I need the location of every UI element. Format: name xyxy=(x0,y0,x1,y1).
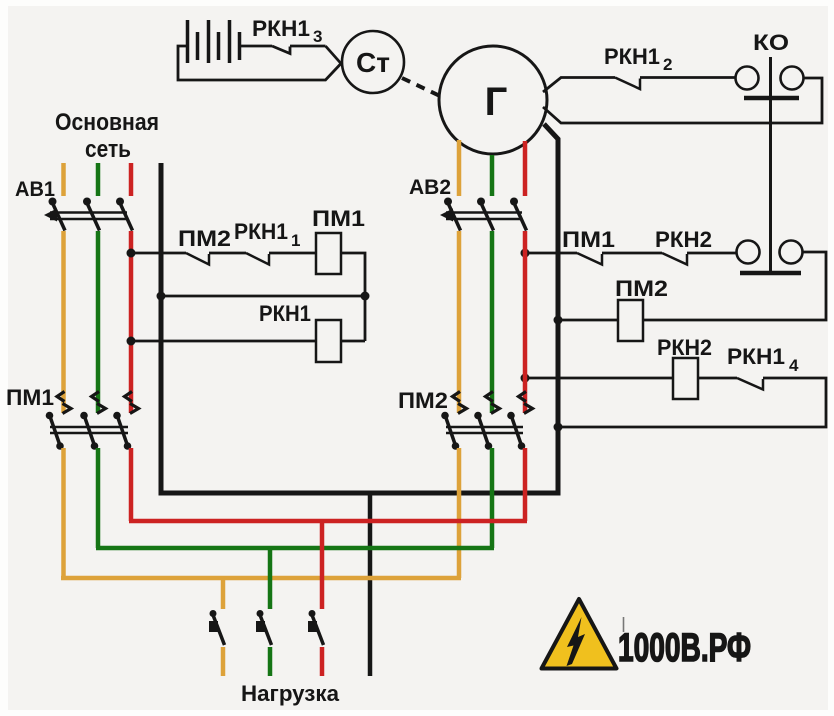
wire РКН1_1 to ПМ1 coil xyxy=(269,252,316,255)
wire РКН2 contact to КО lower xyxy=(687,252,737,255)
bus phase A (orange) xyxy=(61,576,461,581)
dashed shaft link Ст-Г xyxy=(402,78,440,96)
coil ПМ1 xyxy=(316,233,341,274)
wire red node to ПМ2 contact xyxy=(131,252,186,255)
generator Г xyxy=(439,46,547,154)
node on neutral (558,427) xyxy=(554,423,563,432)
wire phase A АВ1 to ПМ1 xyxy=(61,231,66,413)
wire Г to РКН1_2 xyxy=(543,78,615,93)
svg-text:Основная: Основная xyxy=(55,109,159,136)
wire phase B ПМ2 out xyxy=(490,448,495,548)
wire ПМ2 to РКН1_1 xyxy=(209,252,246,255)
svg-text:ПМ2: ПМ2 xyxy=(615,276,668,301)
svg-text:АВ1: АВ1 xyxy=(15,178,55,201)
load switch phase C xyxy=(308,610,324,645)
wire red node to РКН2 coil xyxy=(525,377,673,380)
wire ПМ2 coil to КО lower xyxy=(643,252,826,320)
wire РКН1_4 loop to neutral xyxy=(558,378,826,427)
wire phase B АВ2 to ПМ2 xyxy=(490,231,495,413)
wire РКН1 coil right xyxy=(341,340,365,343)
starter Ст xyxy=(342,31,404,93)
neutral bus left vertical xyxy=(159,163,164,493)
svg-text:ПМ1: ПМ1 xyxy=(6,385,54,410)
coil ПМ2 xyxy=(618,300,643,341)
bus phase C (red) xyxy=(129,519,527,524)
contact ПМ1 (auxiliary) xyxy=(577,253,602,265)
svg-text:3: 3 xyxy=(313,27,322,46)
wire neutral to ПМ2 coil xyxy=(558,319,618,322)
svg-text:2: 2 xyxy=(663,55,672,74)
wire ПМ1 coil right xyxy=(341,253,365,341)
wire load phase A xyxy=(221,647,226,676)
svg-text:РКН1: РКН1 xyxy=(604,44,660,69)
КО upper contact circles xyxy=(736,67,804,90)
neutral drop to load xyxy=(368,493,373,676)
contact РКН2 (auxiliary) xyxy=(662,253,687,265)
КО lower linkage bar xyxy=(740,271,801,276)
node (365,296) xyxy=(361,292,370,301)
load switch phase B xyxy=(256,610,272,645)
contactor ПМ2 xyxy=(441,392,532,450)
wire load phase B xyxy=(268,647,273,676)
wire phase B ПМ1 out xyxy=(96,448,101,548)
drop phase A to load xyxy=(221,578,226,609)
logo tick xyxy=(623,617,625,632)
wire to starter xyxy=(326,46,342,64)
wire battery left/bottom loop xyxy=(178,46,341,80)
coil РКН2 xyxy=(673,358,698,399)
svg-text:Нагрузка: Нагрузка xyxy=(241,681,340,706)
wire phase B АВ1 to ПМ1 xyxy=(96,231,101,413)
svg-text:РКН2: РКН2 xyxy=(655,227,712,252)
node on red phase (525,253) xyxy=(521,249,530,258)
svg-text:Ст: Ст xyxy=(356,47,390,78)
svg-text:РКН1: РКН1 xyxy=(259,301,311,326)
КО lower contact circles xyxy=(737,241,803,264)
breaker АВ2 xyxy=(440,198,527,231)
drop phase C to load xyxy=(320,521,325,609)
label РКН1_4 xyxy=(727,344,799,375)
svg-text:РКН1: РКН1 xyxy=(234,219,288,244)
coil РКН1 xyxy=(316,320,341,362)
wire phase C АВ1 to ПМ1 xyxy=(129,231,134,413)
svg-text:АВ2: АВ2 xyxy=(409,176,451,199)
wire РКН1_2 to КО xyxy=(640,76,736,79)
svg-text:РКН2: РКН2 xyxy=(657,335,712,360)
wire ПМ1 to РКН2 contact xyxy=(602,252,662,255)
svg-text:ПМ1: ПМ1 xyxy=(312,206,365,231)
wire neutral tap y=296 xyxy=(161,295,365,298)
warning triangle xyxy=(542,599,617,669)
contact РКН1_3 xyxy=(272,46,326,54)
svg-text:1000В.РФ: 1000В.РФ xyxy=(618,626,751,670)
wire Г phase B xyxy=(490,155,495,196)
wire Г phase C xyxy=(523,141,528,196)
svg-text:сеть: сеть xyxy=(85,136,131,163)
contact РКН1_2 xyxy=(615,78,640,90)
load switch phase A xyxy=(209,610,225,645)
contact ПМ2 (auxiliary NC) xyxy=(186,253,209,265)
wire phase C ПМ1 out xyxy=(129,448,134,521)
neutral bus bottom horizontal xyxy=(159,491,561,496)
КО upper linkage bar xyxy=(744,96,799,101)
contactor ПМ1 xyxy=(46,392,139,450)
wire Г phase A xyxy=(457,140,462,196)
svg-text:4: 4 xyxy=(789,356,799,375)
svg-text:Г: Г xyxy=(485,80,508,124)
node on red phase (525,378) xyxy=(521,374,530,383)
node on neutral (558,320) xyxy=(554,316,563,325)
wire battery plus terminal xyxy=(239,45,272,48)
wire phase C АВ2 to ПМ2 xyxy=(523,231,528,413)
wire КО return loop to Г xyxy=(543,78,822,123)
breaker АВ1 xyxy=(44,198,133,231)
neutral bus right vertical (from Г) xyxy=(544,124,558,493)
label Основная сеть xyxy=(55,109,159,163)
label РКН1_3 xyxy=(252,16,322,46)
battery GB xyxy=(188,20,240,63)
contact РКН1_1 xyxy=(246,253,269,265)
wire phase A ПМ1 out xyxy=(61,448,66,578)
wire mains phase A (orange) xyxy=(61,163,66,196)
wire РКН2 coil to РКН1_4 xyxy=(698,377,737,380)
svg-text:ПМ2: ПМ2 xyxy=(178,226,231,251)
wire red node to РКН1 coil xyxy=(131,340,316,343)
svg-text:ПМ2: ПМ2 xyxy=(398,388,448,413)
node (161,296) xyxy=(157,292,166,301)
wire phase A АВ2 to ПМ2 xyxy=(457,231,462,413)
contact РКН1_4 xyxy=(737,378,763,390)
bus phase B (green) xyxy=(96,546,494,551)
wire mains phase C (red) xyxy=(129,163,134,196)
svg-text:КО: КО xyxy=(753,30,789,55)
node on red phase (131,253) xyxy=(127,249,136,258)
wire mains phase B (green) xyxy=(96,163,101,196)
drop phase B to load xyxy=(268,548,273,609)
wire load phase C xyxy=(320,647,325,676)
wire red node to ПМ1 contact xyxy=(525,252,577,255)
node on red phase (131,341) xyxy=(127,337,136,346)
label РКН1_1 xyxy=(234,219,300,250)
label РКН1_2 xyxy=(604,44,672,74)
svg-text:РКН1: РКН1 xyxy=(727,344,785,369)
wire phase A ПМ2 out xyxy=(457,448,462,578)
svg-text:ПМ1: ПМ1 xyxy=(562,227,615,252)
svg-text:РКН1: РКН1 xyxy=(252,16,310,41)
КО linkage vertical xyxy=(769,57,772,273)
wire phase C ПМ2 out xyxy=(523,448,528,521)
svg-text:1: 1 xyxy=(291,231,300,250)
